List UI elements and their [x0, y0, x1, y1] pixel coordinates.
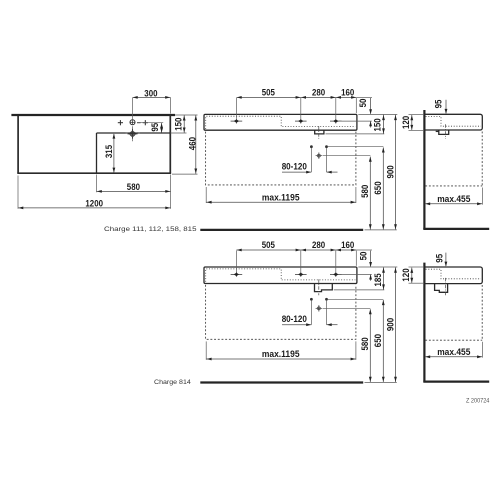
tap hole cross 3 (814) [330, 272, 342, 277]
bowl top extension line [170, 132, 186, 134]
dim max.1195 line (814) [206, 358, 355, 360]
drain pipe dot left (814) [310, 298, 313, 301]
drain stub (side 814) [435, 284, 448, 293]
extension line slab right up (814) [355, 251, 357, 266]
svg-text:max.1195: max.1195 [262, 193, 300, 203]
svg-text:300: 300 [144, 89, 157, 99]
svg-text:580: 580 [360, 185, 370, 198]
svg-text:160: 160 [341, 88, 354, 98]
drain stub [315, 130, 324, 134]
floor line [423, 228, 489, 230]
tap hole cross 2 [295, 119, 307, 124]
bowl left extension line down [96, 175, 98, 193]
slab top extension line right (814) [358, 266, 397, 268]
drain centerline (814) [318, 279, 320, 295]
dim 460 line [195, 115, 197, 174]
slab outline (side) [424, 114, 482, 130]
svg-text:120: 120 [401, 268, 411, 281]
dim 95 extension line [137, 122, 163, 124]
drain pipe dot right [325, 145, 328, 148]
svg-text:185: 185 [373, 273, 383, 286]
stub extension line (814) [334, 289, 385, 291]
basin outline bottom edge [17, 172, 171, 174]
dash mark [137, 122, 141, 124]
dim 120 line [411, 115, 413, 130]
extension line to tap 1 [235, 98, 237, 119]
dim 315 line [113, 134, 115, 172]
dim 300 extension line right (above wall) [170, 98, 172, 114]
basin left extension line down [17, 176, 19, 209]
dim 900 line (814) [395, 267, 397, 382]
tap hole level extension (814) [339, 273, 372, 275]
slab bottom extension line left [409, 129, 425, 131]
extension from drill mark to dim 580 [323, 155, 371, 157]
dim 185 line [383, 267, 385, 289]
dim 95 line [161, 123, 163, 133]
svg-text:280: 280 [312, 240, 325, 250]
extension from drill mark to dim 580 (814) [323, 307, 371, 309]
tap hole centerline (side) [445, 124, 447, 138]
svg-text:150: 150 [173, 118, 183, 131]
drain stub (side) [439, 130, 449, 134]
right cross mark [143, 120, 148, 125]
dim 580 line (814) [369, 309, 371, 382]
tap hole centerline (side 814) [444, 278, 446, 296]
drain pipe line left (814) [310, 301, 312, 325]
cabinet body dashed outline (814) [206, 285, 356, 339]
slab inner dotted edge (side 814) [426, 269, 481, 279]
drain pipe dot left [310, 145, 313, 148]
drain pipe line right [326, 148, 328, 172]
basin outline left edge [17, 116, 19, 173]
dim max.455 line [425, 203, 482, 205]
dim 580 line (right) [369, 157, 371, 230]
svg-text:max.455: max.455 [437, 347, 470, 357]
drain stub extension line [326, 133, 385, 135]
dim 150 line (plan) [183, 115, 185, 133]
svg-text:80-120: 80-120 [282, 162, 307, 172]
drain pipe dot right (814) [325, 298, 328, 301]
svg-text:Charge 814: Charge 814 [154, 379, 191, 386]
dim line 505/280/160 (814) [236, 249, 356, 251]
extension from dot to dim 650 (814) [328, 298, 384, 300]
wall line vertical (814) [423, 263, 425, 382]
dim 300 extension line left (to circle) [131, 98, 133, 119]
tap hole cross 3 [330, 119, 342, 124]
wall line [11, 114, 175, 116]
dim 80-120 line [282, 171, 311, 173]
body dashed bottom (side 814) [425, 339, 482, 341]
svg-text:900: 900 [385, 165, 395, 178]
extension line to tap 3 (814) [335, 251, 337, 273]
slab top extension continues (shared with 900) [409, 113, 425, 115]
slab top extension continues (814) [409, 266, 425, 268]
slab inner dotted edge [206, 116, 356, 129]
bowl top edge [97, 132, 171, 134]
dim max.455 line (814) [425, 356, 482, 358]
extension line to tap 2 [300, 98, 302, 119]
svg-text:Charge 111, 112, 158, 815: Charge 111, 112, 158, 815 [104, 226, 197, 233]
max.1195 right extension (814) [355, 341, 357, 359]
wall line vertical [423, 110, 425, 229]
dim 80-120 line (814) [282, 324, 311, 326]
max.1195 left extension (814) [205, 341, 207, 359]
svg-text:505: 505 [262, 240, 275, 250]
dim 580 line [97, 190, 171, 192]
slab bottom extension line left (814) [409, 282, 425, 284]
slab outline (side 814) [424, 267, 482, 284]
svg-text:50: 50 [359, 252, 369, 261]
svg-text:max.455: max.455 [437, 194, 470, 204]
drain pipe line right (814) [326, 301, 328, 325]
washbasin slab outline [204, 114, 357, 130]
basin right extension line down [170, 175, 172, 209]
svg-text:1200: 1200 [85, 199, 103, 209]
svg-text:580: 580 [127, 182, 140, 192]
svg-text:150: 150 [373, 118, 383, 131]
svg-text:95: 95 [150, 123, 160, 132]
drain stub lip [436, 130, 439, 132]
floor baseline thin (814) [365, 382, 397, 384]
wall extension line right [175, 114, 198, 116]
svg-text:280: 280 [312, 88, 325, 98]
body dashed right (side 814) [481, 285, 483, 340]
washbasin slab outline (814) [204, 267, 357, 284]
dim 150 line (front) [383, 115, 385, 134]
extension line to tap 3 [335, 98, 337, 119]
svg-text:120: 120 [401, 116, 411, 129]
tap hole cross 1 (814) [231, 272, 243, 277]
extension line to tap 1 (814) [235, 251, 237, 273]
svg-text:95: 95 [433, 100, 443, 109]
dim 1200 line [18, 207, 171, 209]
svg-text:80-120: 80-120 [282, 314, 307, 324]
dim 300 line [132, 96, 170, 98]
slab inner dotted edge (814) [206, 269, 356, 282]
dim line 505/280/160 [236, 96, 356, 98]
body dashed bottom (side) [425, 185, 482, 187]
svg-text:650: 650 [373, 181, 383, 194]
max.1195 right extension [355, 187, 357, 203]
dim 50 reference extension [356, 96, 372, 98]
slab top extension line right [358, 113, 397, 115]
max.1195 left extension [205, 187, 207, 203]
floor line (814) [200, 381, 363, 383]
dim 900 line [395, 115, 397, 230]
extension from dot to dim 650 [328, 146, 384, 148]
slab inner dotted edge (side) [426, 117, 481, 127]
dim max.1195 line [206, 201, 355, 203]
dim 95 line (side 814) [445, 253, 447, 266]
dim 650 line [382, 147, 384, 229]
faucet hole symbol (drill mark) [126, 126, 140, 141]
dim 650 line (814) [382, 300, 384, 382]
basin bottom extension line right [172, 173, 198, 175]
tap hole cross 1 [231, 119, 243, 124]
floor line [200, 229, 363, 231]
svg-text:580: 580 [360, 337, 370, 350]
tap hole circle symbol [130, 120, 135, 125]
svg-text:315: 315 [104, 145, 114, 158]
drain centerline [318, 126, 320, 139]
dim 95 line (side) [445, 100, 447, 114]
tap hole cross 2 (814) [295, 272, 307, 277]
floor baseline thin [365, 229, 397, 231]
svg-text:460: 460 [187, 137, 197, 150]
svg-text:Z 200724: Z 200724 [466, 398, 490, 405]
basin outline right edge [169, 114, 171, 173]
left cross mark [118, 120, 123, 125]
body dashed right (side) [481, 132, 483, 186]
max.455 right extension [481, 188, 483, 205]
cabinet body dashed outline [206, 132, 356, 185]
svg-text:max.1195: max.1195 [262, 349, 300, 359]
drain outlet drill mark (814) [316, 305, 323, 312]
tap hole level extension line [339, 120, 372, 122]
dim 50 reference extension (814) [356, 249, 372, 251]
svg-text:50: 50 [358, 99, 368, 108]
dim 120 line (814) [411, 268, 413, 283]
extension line slab right up [355, 98, 357, 113]
max.455 right extension (814) [481, 342, 483, 358]
svg-text:650: 650 [373, 334, 383, 347]
dim 50 line + arrows (814) [370, 251, 372, 267]
siphon cover stub (814) [315, 284, 333, 292]
drain pipe line left [310, 148, 312, 172]
svg-text:505: 505 [262, 88, 275, 98]
drain outlet drill mark [316, 152, 323, 159]
svg-text:900: 900 [385, 318, 395, 331]
bowl left edge [96, 133, 98, 173]
extension line to tap 2 (814) [300, 251, 302, 273]
svg-text:95: 95 [434, 254, 444, 263]
dim 50 line + arrows [370, 98, 372, 114]
svg-text:160: 160 [341, 240, 354, 250]
floor line (814) [423, 381, 489, 383]
